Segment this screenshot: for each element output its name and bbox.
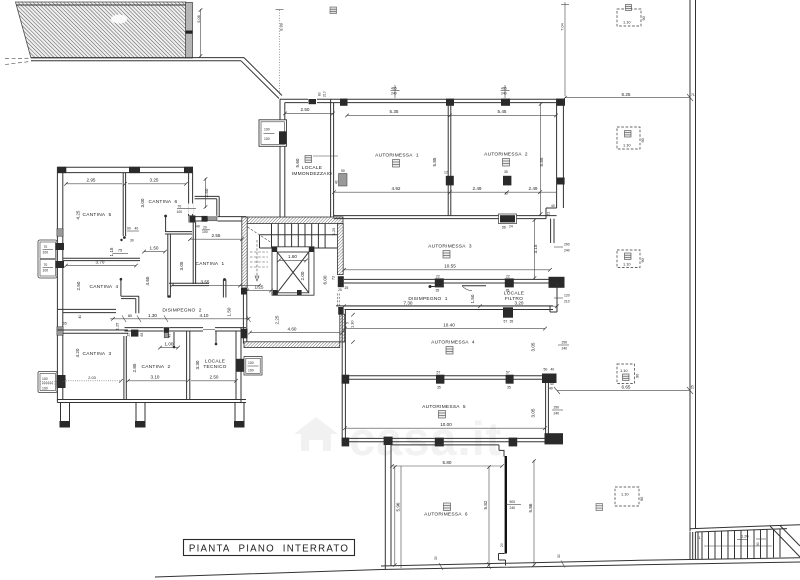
garage left wall (330, 99, 332, 217)
svg-text:100: 100 (42, 387, 48, 391)
boundary dashes left (5, 57, 30, 59)
divider c3/c2 (123, 336, 125, 400)
svg-text:290: 290 (564, 243, 570, 247)
bottom dim ticks (439, 563, 443, 570)
svg-text:240: 240 (564, 249, 570, 253)
svg-text:FILTRO: FILTRO (505, 296, 523, 302)
svg-text:CANTINA 5: CANTINA 5 (83, 212, 112, 218)
top wall cantina 5-6 (57, 166, 193, 168)
svg-text:IMMONDEZZAIO: IMMONDEZZAIO (292, 171, 332, 177)
svg-text:3.15: 3.15 (533, 244, 538, 253)
svg-text:100: 100 (177, 210, 183, 214)
svg-text:AUTORIMESSA 4: AUTORIMESSA 4 (431, 340, 475, 346)
tecnico right wall (235, 331, 237, 400)
svg-text:LOCALE: LOCALE (302, 165, 322, 171)
elevator shaft (272, 247, 314, 295)
dim 4.92 / 2.49 (334, 191, 556, 193)
svg-text:12: 12 (444, 171, 448, 175)
garage bottom wall (334, 215, 557, 217)
stair left hatched wall (242, 217, 247, 288)
svg-text:10.00: 10.00 (440, 422, 452, 427)
dim 10.40 (345, 328, 545, 330)
svg-text:30: 30 (130, 239, 134, 243)
door disimpegno1 (338, 307, 343, 315)
svg-text:100: 100 (248, 369, 254, 373)
svg-text:5.85: 5.85 (539, 157, 544, 166)
landing below stairs (241, 288, 247, 295)
svg-text:6.65: 6.65 (622, 384, 631, 389)
svg-text:56: 56 (502, 226, 506, 230)
svg-text:1.30: 1.30 (350, 320, 355, 328)
right boundary double line (689, 0, 691, 532)
svg-text:25: 25 (338, 288, 342, 292)
svg-text:1: 1 (699, 536, 701, 540)
dashed box 3 (617, 250, 645, 268)
hatched wall right vertical (340, 314, 345, 342)
stair top hatched wall (242, 217, 343, 224)
left block walls (38, 167, 262, 428)
svg-text:6.00: 6.00 (323, 275, 328, 284)
svg-text:1.10: 1.10 (621, 492, 629, 497)
dim 10.00 (345, 427, 545, 429)
svg-text:3.05: 3.05 (531, 408, 536, 417)
cantina6 door 70/100 (188, 204, 193, 215)
svg-text:AUTORIMESSA 2: AUTORIMESSA 2 (484, 152, 528, 158)
svg-text:22: 22 (547, 212, 551, 216)
svg-text:1.10: 1.10 (623, 20, 631, 25)
bottom-right ramp (690, 525, 800, 560)
svg-text:70: 70 (44, 245, 48, 249)
svg-text:2.85: 2.85 (132, 363, 137, 372)
svg-text:100: 100 (264, 128, 270, 132)
svg-text:35: 35 (437, 386, 441, 390)
svg-text:40: 40 (549, 387, 553, 391)
ar4 left wall (341, 310, 343, 442)
bottom stubs (60, 403, 62, 422)
cantina6 bottom wall (165, 231, 192, 233)
svg-text:1.50: 1.50 (470, 294, 475, 303)
bottom wall of block (57, 399, 246, 401)
left wall (56, 167, 58, 403)
ar5 bottom wall (342, 437, 553, 439)
svg-text:25: 25 (127, 333, 131, 337)
disimpegno1 dims (344, 305, 557, 307)
dashed box 4 (617, 364, 640, 384)
svg-text:1.25: 1.25 (331, 228, 336, 236)
svg-text:2.55: 2.55 (212, 233, 221, 238)
svg-text:240: 240 (391, 92, 397, 96)
svg-text:72: 72 (331, 276, 336, 280)
svg-text:AUTORIMESSA 3: AUTORIMESSA 3 (428, 244, 472, 250)
door swing disimpegno1 (462, 285, 486, 287)
svg-text:22: 22 (506, 275, 510, 279)
svg-text:2.49: 2.49 (529, 186, 538, 191)
door 80/210 on top wall (308, 98, 317, 103)
ar4 right wall + 290 labels (545, 383, 547, 434)
svg-text:4.92: 4.92 (392, 186, 401, 191)
tecnico top wall (190, 327, 246, 329)
svg-text:PIANTA PIANO INTERRATO: PIANTA PIANO INTERRATO (189, 544, 349, 555)
svg-text:3.05: 3.05 (531, 342, 536, 351)
ramp left strip (689, 532, 691, 560)
svg-text:65: 65 (140, 333, 144, 337)
dashed box 1 (617, 5, 646, 27)
small icon near box5 (596, 504, 603, 511)
svg-text:4.20: 4.20 (75, 348, 80, 357)
svg-text:1.15: 1.15 (109, 247, 114, 256)
svg-text:35: 35 (507, 386, 511, 390)
svg-text:2.03: 2.03 (88, 375, 96, 380)
svg-text:1.30: 1.30 (148, 313, 157, 318)
svg-text:CANTINA 3: CANTINA 3 (83, 351, 112, 357)
svg-text:2.50: 2.50 (204, 188, 209, 197)
svg-text:5.86: 5.86 (528, 503, 533, 512)
svg-text:65: 65 (63, 322, 67, 326)
svg-text:210: 210 (323, 91, 327, 97)
dim 6.25 (565, 97, 690, 99)
svg-text:40: 40 (78, 315, 82, 319)
AR6 top wall (391, 444, 499, 446)
watermark casa.it logo (294, 412, 502, 465)
svg-text:4.25: 4.25 (76, 210, 81, 219)
svg-text:5.80: 5.80 (443, 460, 452, 465)
bottom wall door block (499, 214, 517, 224)
dim 6.65 (557, 390, 690, 392)
svg-text:1.50: 1.50 (227, 307, 232, 316)
svg-text:70: 70 (44, 263, 48, 267)
svg-text:30: 30 (557, 554, 561, 558)
svg-text:7.04: 7.04 (560, 22, 565, 30)
svg-text:22: 22 (436, 275, 440, 279)
upper jog room (cantina1 top) (195, 195, 220, 197)
AUTORIMESSA 3 room (338, 276, 344, 287)
upper boundary double line (31, 57, 244, 59)
svg-text:100: 100 (202, 230, 208, 234)
svg-text:AUTORIMESSA 6: AUTORIMESSA 6 (424, 512, 468, 518)
svg-text:20: 20 (203, 226, 207, 230)
cantina1 left wall (190, 216, 196, 223)
svg-text:240: 240 (562, 347, 568, 351)
svg-text:5.96: 5.96 (396, 502, 401, 511)
svg-text:40: 40 (135, 227, 139, 231)
svg-text:DISIMPEGNO 2: DISIMPEGNO 2 (162, 308, 201, 314)
right side dashed pillar boxes (330, 5, 646, 511)
svg-text:5.45: 5.45 (498, 109, 507, 114)
hatched band top-left (16, 2, 202, 58)
ar1/ar2 divider (447, 103, 449, 216)
svg-text:3.10: 3.10 (151, 375, 160, 380)
svg-text:90: 90 (127, 227, 131, 231)
svg-text:25: 25 (691, 385, 695, 389)
svg-text:40: 40 (335, 180, 339, 184)
svg-text:4.60: 4.60 (288, 326, 297, 331)
svg-text:1.10: 1.10 (623, 143, 631, 148)
svg-text:AUTORIMESSA 1: AUTORIMESSA 1 (375, 153, 419, 159)
svg-text:90: 90 (341, 169, 345, 173)
svg-text:8.99: 8.99 (279, 23, 284, 31)
boundary diagonal (244, 58, 282, 96)
garage block (280, 85, 695, 570)
cantina5 bottom wall 3.70 (63, 257, 140, 259)
svg-text:210: 210 (564, 300, 570, 304)
cantina4 right wall (167, 234, 169, 298)
svg-text:240: 240 (554, 412, 560, 416)
top wall pillars (340, 99, 348, 106)
svg-text:2.95: 2.95 (87, 178, 96, 183)
svg-text:6.25: 6.25 (622, 92, 631, 97)
small icon top (330, 7, 337, 14)
svg-text:AUTORIMESSA 5: AUTORIMESSA 5 (422, 404, 466, 410)
svg-text:DISIMPEGNO 1: DISIMPEGNO 1 (408, 296, 447, 302)
svg-text:4.65: 4.65 (145, 276, 150, 285)
ar4 top wall (336, 305, 553, 307)
svg-text:3.70: 3.70 (96, 259, 105, 264)
svg-text:5.85: 5.85 (432, 157, 437, 166)
svg-text:1.00: 1.00 (165, 341, 174, 346)
svg-text:5.60: 5.60 (295, 158, 300, 167)
cantina1 top wall with door (195, 216, 246, 218)
disimpegno2 dim line (110, 318, 249, 320)
AR6 right thick wall (503, 450, 505, 456)
svg-text:500: 500 (510, 500, 516, 504)
svg-text:5.82: 5.82 (483, 500, 488, 509)
divider cantina5/6 (122, 173, 124, 236)
svg-text:2.50: 2.50 (301, 107, 310, 112)
divider c2/tecnico (186, 331, 188, 400)
svg-text:10.40: 10.40 (443, 322, 455, 327)
dashed box 5 (615, 487, 644, 506)
dotted line 8.99 (279, 10, 281, 96)
svg-text:3.30: 3.30 (195, 360, 200, 369)
svg-text:1.20: 1.20 (741, 534, 749, 539)
svg-text:35: 35 (436, 289, 440, 293)
ar2 pillar (503, 176, 511, 186)
window box 100/100 lower (38, 372, 57, 393)
locale immondezzaio walls (279, 99, 281, 217)
stair right hatched wall (337, 224, 343, 275)
svg-text:1.60: 1.60 (288, 254, 297, 259)
south wall of corridor (top of cantina 3/2/tecnico) (57, 329, 128, 331)
svg-text:3.55: 3.55 (201, 279, 210, 284)
svg-text:LOCALE: LOCALE (504, 291, 524, 297)
ar4/ar5 divider wall (345, 375, 552, 377)
svg-text:40: 40 (196, 225, 200, 229)
svg-text:100: 100 (42, 377, 48, 381)
svg-text:100: 100 (248, 361, 254, 365)
svg-text:5.06: 5.06 (196, 15, 201, 23)
svg-text:3.00: 3.00 (140, 198, 145, 207)
svg-text:40: 40 (551, 204, 555, 208)
dimension ticks (62, 8, 567, 567)
svg-text:100: 100 (43, 251, 49, 255)
immondezzaio pointer line (313, 155, 338, 157)
AR6 left wall (384, 444, 386, 570)
svg-text:24: 24 (509, 225, 513, 229)
stair treads (271, 224, 273, 249)
svg-text:20: 20 (500, 543, 504, 547)
svg-text:45: 45 (168, 334, 172, 338)
svg-text:1.10: 1.10 (623, 262, 631, 267)
svg-text:70: 70 (178, 205, 182, 209)
svg-text:100: 100 (264, 137, 270, 141)
ar3 bottom wall (344, 278, 557, 280)
svg-text:57: 57 (504, 320, 508, 324)
svg-text:290: 290 (562, 341, 568, 345)
stair return dashes + arrow (248, 227, 273, 243)
svg-text:4.10: 4.10 (200, 313, 209, 318)
AR6 dims (392, 465, 502, 467)
dashed box 2 (617, 127, 645, 149)
svg-text:495: 495 (391, 87, 397, 91)
cantina4 bottom walls (57, 308, 116, 310)
title box PIANTA PIANO INTERRATO (184, 540, 355, 556)
svg-text:35: 35 (504, 170, 508, 174)
svg-text:CANTINA 1: CANTINA 1 (196, 261, 225, 267)
svg-text:1.50: 1.50 (150, 245, 159, 250)
svg-text:2.50: 2.50 (210, 375, 219, 380)
svg-text:2.00: 2.00 (300, 271, 305, 280)
svg-text:40: 40 (551, 368, 555, 372)
svg-text:3.05: 3.05 (179, 261, 184, 270)
svg-text:35: 35 (510, 320, 514, 324)
svg-text:1.10: 1.10 (620, 368, 628, 373)
svg-text:57: 57 (437, 371, 441, 375)
svg-text:2.49: 2.49 (473, 186, 482, 191)
svg-text:80: 80 (318, 92, 322, 96)
svg-text:240: 240 (501, 92, 507, 96)
dim 5.06 (200, 9, 202, 57)
svg-text:71: 71 (691, 93, 695, 97)
svg-text:CANTINA 2: CANTINA 2 (142, 364, 171, 370)
svg-text:100: 100 (43, 269, 49, 273)
svg-text:290: 290 (554, 406, 560, 410)
top wall (280, 98, 565, 100)
svg-text:40: 40 (550, 382, 554, 386)
svg-text:75: 75 (118, 248, 122, 253)
window box 70/100 double (38, 240, 57, 278)
svg-text:120: 120 (564, 294, 570, 298)
icon immondezzaio (305, 156, 312, 163)
svg-text:CANTINA 6: CANTINA 6 (149, 199, 178, 205)
box 100/100 right of tecnico (244, 357, 262, 376)
cantina1 bottom wall (169, 282, 209, 284)
svg-text:TECNICO: TECNICO (203, 364, 226, 370)
bottom boundary lines (155, 562, 800, 577)
svg-text:90: 90 (756, 542, 760, 546)
svg-text:495: 495 (501, 87, 507, 91)
door leaf cantina2 (173, 346, 176, 349)
svg-text:CANTINA 4: CANTINA 4 (90, 284, 119, 290)
wall section bar (186, 3, 193, 59)
dim line 5.35/5.45 (347, 114, 556, 116)
svg-text:57: 57 (506, 371, 510, 375)
cantina6 right wall (188, 167, 190, 216)
svg-text:30: 30 (434, 556, 438, 560)
svg-text:1.25: 1.25 (115, 323, 120, 331)
dim 7.04 (564, 2, 566, 96)
svg-text:10.55: 10.55 (444, 264, 456, 269)
svg-text:240: 240 (510, 506, 516, 510)
svg-text:LOCALE: LOCALE (205, 359, 225, 365)
ticks above wall (394, 85, 396, 98)
ar3 right wall (550, 219, 552, 243)
hatched ramp south wall (244, 342, 340, 348)
svg-text:25: 25 (345, 286, 349, 290)
svg-text:2.50: 2.50 (76, 281, 81, 290)
garage outer right wall (556, 99, 558, 208)
center stairs (241, 99, 355, 347)
svg-text:3.25: 3.25 (150, 178, 159, 183)
svg-text:50: 50 (544, 368, 548, 372)
svg-text:5.35: 5.35 (390, 109, 399, 114)
svg-text:2.25: 2.25 (275, 315, 280, 324)
shaft box 100/100 (259, 120, 287, 147)
